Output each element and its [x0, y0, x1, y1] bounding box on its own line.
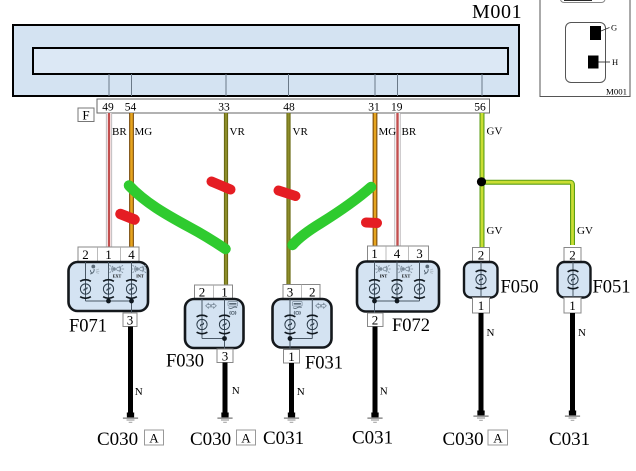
svg-text:N: N [380, 386, 388, 398]
svg-text:G: G [611, 23, 617, 33]
connector key box A (F071) [145, 430, 164, 446]
F031 arrows icon [316, 303, 327, 308]
F051 lamp [568, 270, 579, 289]
svg-text:BR: BR [402, 126, 417, 138]
svg-text:F072: F072 [392, 316, 430, 336]
svg-text:C031: C031 [549, 429, 590, 450]
svg-text:48: 48 [283, 102, 295, 114]
F072 top pin box (pins 1 4 3) [368, 246, 429, 261]
red highlighter mark on VR33 [212, 182, 231, 190]
svg-text:INT: INT [380, 274, 388, 279]
svg-text:2: 2 [199, 285, 206, 300]
F030 top pin box (pins 2 1) [195, 285, 233, 300]
legend pin H leader line [599, 61, 611, 63]
svg-text:MG: MG [135, 126, 153, 138]
F030 stop-lamp icon [228, 302, 238, 315]
svg-text:2: 2 [309, 285, 316, 300]
legend inner connector box [566, 23, 606, 83]
svg-text:2: 2 [82, 247, 89, 262]
svg-text:4: 4 [128, 247, 135, 262]
module M001 body [13, 25, 519, 96]
svg-text:2: 2 [372, 313, 379, 328]
svg-text:A: A [241, 431, 251, 446]
F071 lamp 3 [126, 280, 137, 299]
svg-text:F030: F030 [166, 352, 204, 372]
svg-text:2: 2 [569, 248, 576, 263]
svg-text:2: 2 [478, 248, 485, 263]
svg-text:N: N [487, 327, 495, 339]
F031 N wire termination [284, 413, 299, 423]
F071 junction dots [106, 299, 111, 304]
F030 lamp 2 [219, 315, 230, 334]
F031 internal wires [290, 299, 312, 350]
svg-text:M001: M001 [606, 87, 627, 97]
F071 lamp 1 [80, 280, 91, 299]
lamp unit F071 body [69, 262, 149, 311]
svg-text:C030: C030 [190, 429, 231, 450]
F030 arrows icon [206, 303, 217, 308]
wire BR pin19 [394, 113, 400, 246]
F050 internal wire [480, 262, 482, 298]
svg-text:49: 49 [102, 102, 114, 114]
legend pin G square [590, 26, 601, 40]
svg-text:H: H [612, 57, 618, 67]
legend outer box M001 [540, 0, 630, 97]
svg-text:EXT: EXT [402, 274, 411, 279]
svg-text:C031: C031 [263, 428, 304, 449]
F072 EXT lamp icon [397, 265, 413, 278]
F072 lamp 3 [414, 280, 425, 299]
svg-text:N: N [232, 385, 240, 397]
svg-text:1: 1 [288, 349, 295, 364]
wire MG pin31 [373, 113, 378, 246]
F050 N wire termination [473, 411, 488, 421]
svg-text:3: 3 [416, 246, 423, 261]
F072 bottom pin box (pin 2) [368, 313, 384, 328]
M001 internal stub wires [109, 74, 482, 96]
F071 N wire termination [123, 413, 138, 423]
F071 lamp 2 [103, 280, 114, 299]
F051 N wire termination [565, 411, 580, 421]
F031 bottom pin box (pin 1) [284, 349, 300, 364]
svg-text:VR: VR [230, 126, 246, 138]
lamp unit F051 body [558, 262, 591, 298]
junction node on GV [477, 177, 486, 186]
F031 stop-lamp icon [293, 302, 303, 315]
lamp unit F072 body [357, 262, 439, 312]
svg-text:F071: F071 [69, 317, 107, 337]
F031 lamp 2 [307, 315, 318, 334]
svg-text:1: 1 [221, 285, 228, 300]
svg-text:C030: C030 [97, 429, 138, 450]
svg-text:1: 1 [478, 298, 485, 313]
legend pin H square [588, 56, 599, 69]
F051 top pin box (pin 2) [564, 248, 581, 263]
F071 EXT lamp icon [108, 265, 124, 278]
lamp unit F030 body [185, 299, 244, 348]
wire MG pin54 [129, 113, 134, 247]
svg-text:N: N [297, 386, 305, 398]
green highlighter stroke left [129, 186, 226, 250]
red highlighter mark on MG31 [366, 218, 377, 229]
svg-text:3: 3 [127, 313, 134, 328]
svg-text:A: A [493, 431, 503, 446]
wire GV branch to F051 [482, 182, 573, 245]
F071 bottom pin box (pin 3) [123, 313, 137, 328]
M001 pin row [97, 99, 490, 113]
svg-text:C030: C030 [443, 429, 484, 450]
svg-text:GV: GV [577, 225, 593, 237]
svg-text:F050: F050 [501, 278, 539, 298]
red highlighter mark on MG54 [121, 214, 135, 220]
svg-text:31: 31 [368, 102, 380, 114]
wire GV pin56 vertical [480, 113, 485, 248]
wire BR pin49 [106, 113, 112, 247]
F051 internal wire [572, 262, 574, 298]
pin numbers 49 54 33 48 31 19 56 [102, 102, 486, 114]
svg-text:VR: VR [293, 126, 309, 138]
F072 internal wires [375, 262, 420, 314]
F051 bottom pin box (pin 1) [564, 298, 581, 314]
svg-text:INT: INT [136, 274, 144, 279]
F030 N wire termination [217, 413, 232, 423]
F072 junction dots [372, 299, 377, 304]
wire N from F071 [128, 327, 133, 414]
wire N from F030 [223, 363, 228, 414]
lamp unit F050 body [464, 262, 498, 298]
F050 lamp [476, 270, 487, 289]
wire N from F031 [289, 363, 294, 413]
wire VR pin48 [286, 113, 290, 285]
F031 top pin box (pins 3 2) [283, 285, 320, 300]
F071 INT lamp icon [131, 265, 147, 278]
wire VR pin33 [224, 113, 228, 285]
svg-text:F051: F051 [593, 278, 631, 298]
svg-text:F031: F031 [305, 354, 343, 374]
red highlighter mark on VR48 [279, 191, 296, 197]
svg-text:GV: GV [487, 126, 503, 138]
svg-text:1: 1 [371, 246, 378, 261]
connector letter F box [78, 108, 94, 123]
F030 junction dot [222, 336, 227, 341]
F030 bottom pin box (pin 3) [217, 349, 233, 364]
svg-text:56: 56 [474, 102, 486, 114]
svg-text:MG: MG [379, 126, 397, 138]
F072 lamp 2 [392, 280, 403, 299]
F031 junction dot [288, 336, 293, 341]
svg-text:N: N [135, 386, 143, 398]
svg-text:F: F [82, 108, 89, 123]
F030 internal wires [202, 299, 225, 349]
F072 N wire termination [367, 413, 382, 423]
svg-text:BR: BR [112, 126, 127, 138]
F072 lamp 1 [369, 280, 380, 299]
lamp unit F031 body [273, 299, 332, 348]
svg-text:3: 3 [287, 285, 294, 300]
svg-text:1: 1 [105, 247, 112, 262]
wire N from F051 [570, 313, 575, 411]
F031 lamp 1 [285, 315, 296, 334]
svg-text:M001: M001 [472, 1, 522, 23]
svg-text:N: N [578, 327, 586, 339]
green highlighter stroke right [293, 187, 372, 245]
svg-text:C031: C031 [352, 428, 393, 449]
svg-text:4: 4 [394, 246, 401, 261]
svg-text:GV: GV [487, 225, 503, 237]
F030 lamp 1 [197, 315, 208, 334]
svg-text:54: 54 [125, 102, 137, 114]
svg-text:EXT: EXT [113, 274, 122, 279]
connector key box A (F030) [237, 430, 256, 446]
F050 top pin box (pin 2) [473, 248, 490, 263]
wire N from F072 [373, 327, 378, 414]
F072 horn icon [424, 265, 433, 274]
legend pin G leader line [601, 28, 610, 32]
F071 top pin box (pins 2 1 4) [78, 247, 139, 262]
svg-text:19: 19 [391, 102, 403, 114]
F071 internal wires [86, 262, 132, 313]
F050 bottom pin box (pin 1) [473, 298, 490, 314]
connector key box A (F050) [488, 430, 508, 446]
svg-text:3: 3 [222, 349, 229, 364]
svg-text:1: 1 [569, 298, 576, 313]
F072 INT lamp icon [375, 265, 391, 278]
F071 horn icon [90, 265, 99, 274]
legend top connector sliver [561, 0, 606, 3]
wire N from F050 [479, 313, 484, 411]
svg-text:A: A [149, 431, 159, 446]
svg-text:33: 33 [218, 102, 230, 114]
